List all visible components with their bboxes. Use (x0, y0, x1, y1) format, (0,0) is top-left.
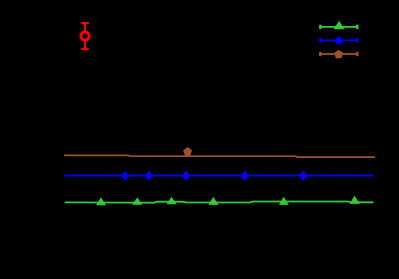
red open circle marker (81, 32, 89, 40)
blue diamond marker 5 (299, 171, 308, 181)
green triangle marker 3 (167, 197, 177, 204)
red errorbar top cap (81, 22, 89, 24)
green triangle marker 2 (132, 197, 142, 204)
legend entry 2: blue errorbar sample line (319, 39, 358, 41)
green triangle marker 5 (279, 197, 289, 205)
legend entry 1 left cap (319, 25, 321, 29)
legend entry 2 left cap (319, 38, 321, 42)
limegreen data line (65, 202, 374, 203)
blue diamond marker 2 (145, 171, 154, 181)
legend entry 1 right cap (356, 25, 358, 29)
blue diamond marker 3 (182, 171, 191, 181)
legend entry 1: green errorbar sample line (319, 26, 358, 28)
red errorbar bottom cap (81, 48, 89, 50)
sienna data line (64, 155, 375, 157)
legend entry 3 left cap (319, 52, 321, 56)
green triangle marker 1 (96, 197, 106, 205)
legend entry 3 right cap (356, 52, 358, 56)
green triangle marker 4 (208, 197, 218, 205)
blue diamond marker 1 (121, 171, 130, 181)
legend green triangle marker (334, 21, 345, 29)
red errorbar point: vertical error line (84, 23, 86, 49)
blue diamond marker 4 (240, 171, 249, 181)
legend sienna pentagon marker (334, 50, 343, 59)
blue data line (64, 175, 374, 177)
green triangle marker 6 (350, 196, 360, 204)
legend entry 2 right cap (356, 38, 358, 42)
legend blue diamond marker (335, 36, 344, 46)
legend entry 3: sienna errorbar sample line (319, 53, 358, 55)
sienna pentagon marker (183, 147, 192, 155)
